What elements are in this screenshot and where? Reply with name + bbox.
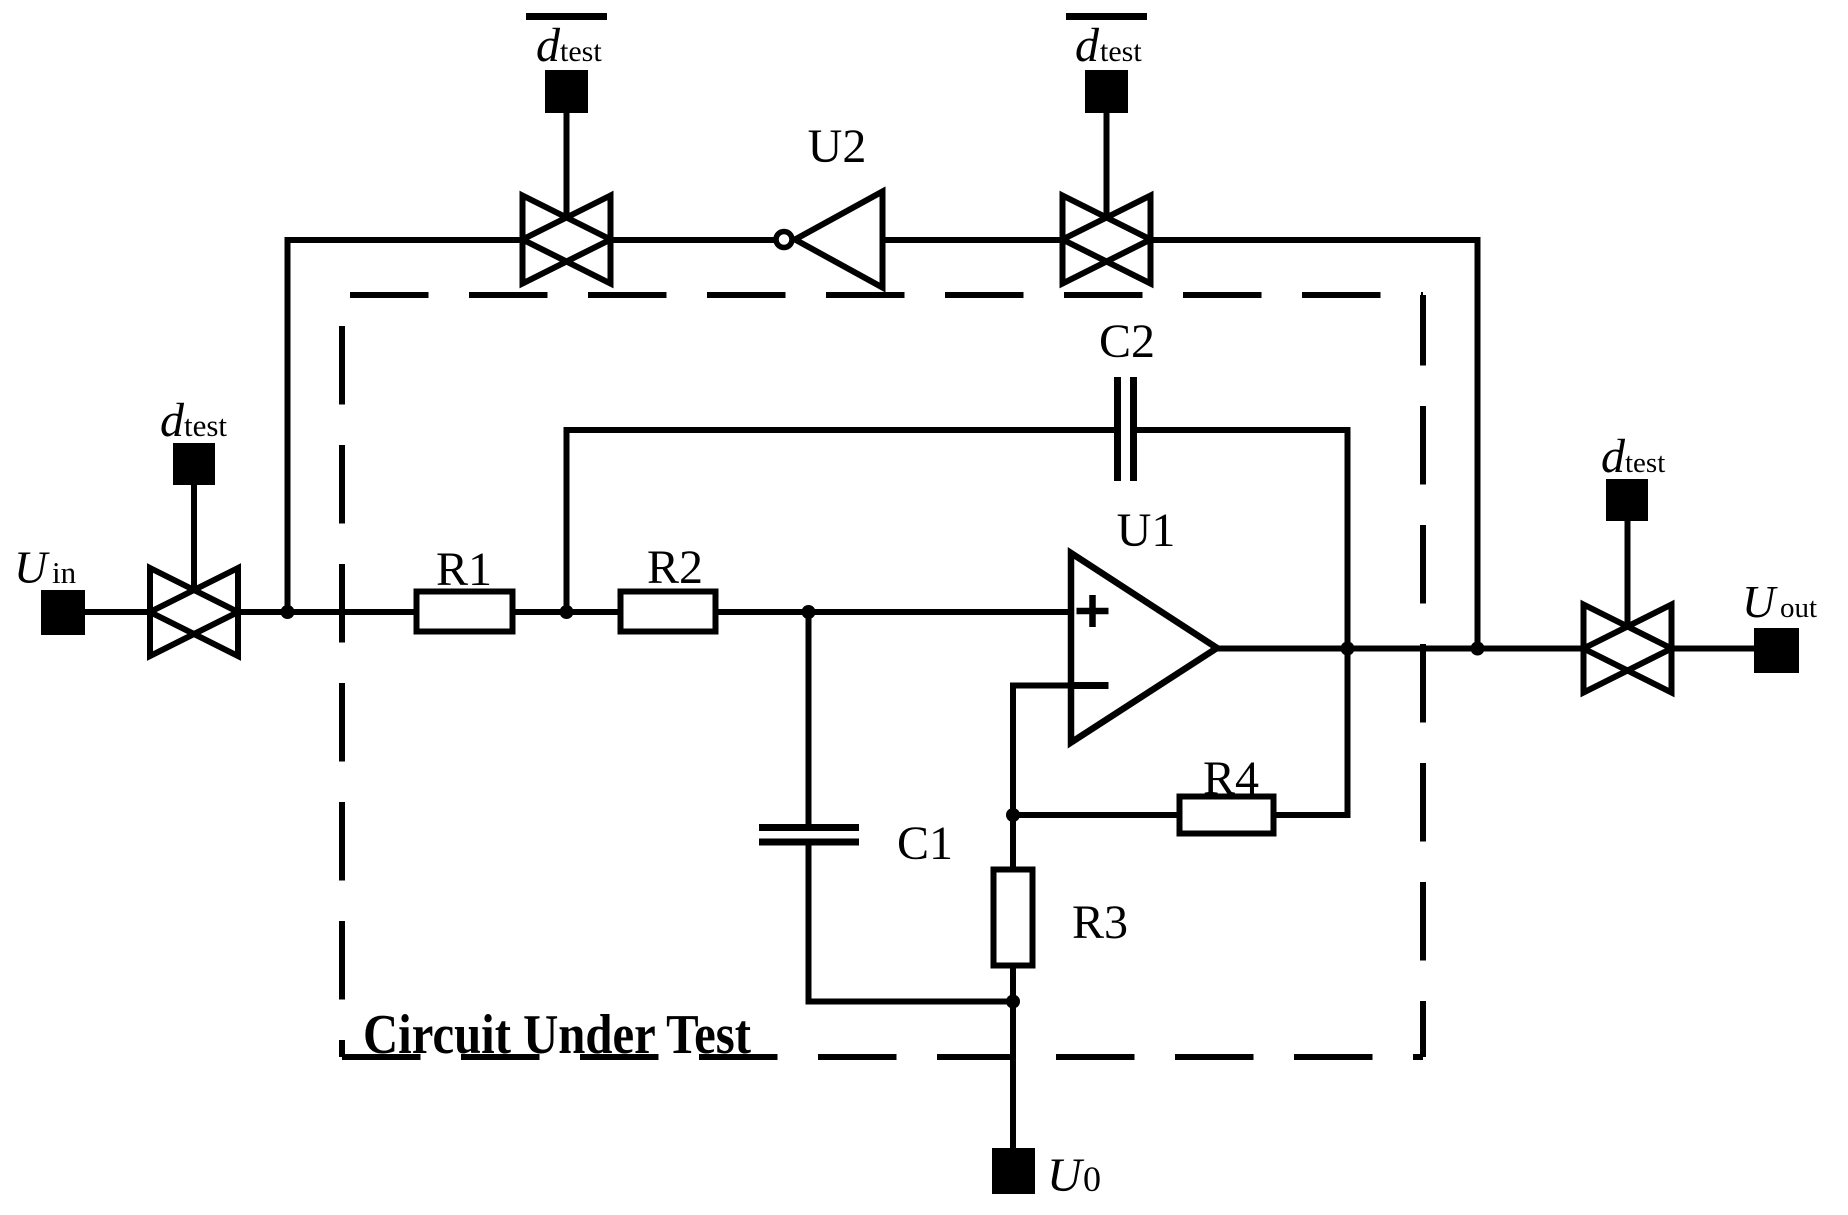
wire: node D to R3 top bbox=[1010, 815, 1016, 870]
junction node F (op-amp output / C2 riser) bbox=[1341, 642, 1355, 656]
terminal square d_test left bbox=[173, 443, 215, 485]
overline of d_test-bar top-left bbox=[526, 13, 607, 20]
wire: control stem of switch S1 bbox=[191, 485, 197, 591]
svg-text:d: d bbox=[1601, 430, 1626, 483]
junction node B (between R1 and R2) bbox=[560, 605, 574, 619]
terminal square d_test-bar top-left bbox=[545, 70, 588, 113]
svg-text:d: d bbox=[160, 394, 185, 447]
svg-text:d: d bbox=[1075, 19, 1100, 72]
wire: C2 right plate to riser down to R4 right end bbox=[1137, 430, 1348, 815]
wire: control stem of switch S2 bbox=[564, 113, 570, 219]
junction node G (output / top feedback riser) bbox=[1471, 642, 1485, 656]
wire: top line between inverter and switch S3 bbox=[883, 237, 1063, 243]
svg-text:U2: U2 bbox=[808, 120, 867, 173]
svg-text:R1: R1 bbox=[436, 543, 492, 596]
wire: Uin terminal to switch S1 bbox=[85, 609, 150, 615]
capacitor C2 right plate bbox=[1130, 377, 1137, 481]
capacitor C1 top plate bbox=[759, 824, 859, 831]
op-amp U1 triangle bbox=[1071, 553, 1217, 743]
svg-text:R2: R2 bbox=[647, 541, 703, 594]
terminal square U0 bbox=[992, 1148, 1035, 1194]
resistor R2 body bbox=[621, 592, 716, 632]
wire: node D to R4 left end bbox=[1013, 812, 1180, 818]
terminal square d_test-bar top-right bbox=[1085, 70, 1128, 113]
junction node A (after switch S1) bbox=[281, 605, 295, 619]
svg-text:U: U bbox=[1047, 1149, 1085, 1202]
resistor R3 body bbox=[994, 870, 1033, 966]
svg-text:U1: U1 bbox=[1117, 504, 1176, 557]
svg-text:C2: C2 bbox=[1099, 315, 1155, 368]
wire: op-amp output to switch S4 bbox=[1216, 646, 1584, 652]
wire: switch S4 to Uout terminal bbox=[1672, 646, 1756, 652]
op-amp U1 minus sign bbox=[1074, 682, 1109, 689]
terminal square Uout bbox=[1754, 628, 1799, 673]
capacitor C1 bottom plate bbox=[759, 839, 859, 846]
junction node E (C1 bottom / R3 bottom) bbox=[1006, 995, 1020, 1009]
switch S2 (top-left analog switch) bbox=[523, 196, 611, 284]
wire: main line branch down to C1 top plate bbox=[806, 612, 812, 824]
svg-text:R4: R4 bbox=[1203, 752, 1259, 805]
svg-text:test: test bbox=[560, 35, 602, 68]
wire: inverting input from node D up to op-amp minus bbox=[1013, 686, 1071, 816]
dashed box top edge bbox=[342, 292, 1423, 298]
dashed box left edge bbox=[339, 295, 345, 1057]
svg-text:Circuit Under Test: Circuit Under Test bbox=[363, 1004, 751, 1066]
op-amp U1 plus sign bbox=[1077, 595, 1109, 627]
svg-text:0: 0 bbox=[1083, 1159, 1101, 1199]
switch S4 (output analog switch) bbox=[1584, 605, 1672, 693]
inverter U2 bubble bbox=[776, 232, 792, 248]
svg-text:U: U bbox=[1742, 576, 1778, 627]
svg-text:test: test bbox=[1625, 447, 1665, 479]
terminal square Uin bbox=[41, 590, 85, 635]
resistor R4 body bbox=[1180, 797, 1274, 834]
svg-text:C1: C1 bbox=[897, 817, 953, 870]
capacitor C2 left plate bbox=[1114, 377, 1121, 481]
svg-text:d: d bbox=[536, 19, 561, 72]
svg-text:U: U bbox=[14, 542, 50, 593]
wire: node B riser up to C2 left plate bbox=[567, 430, 1115, 612]
switch S1 (input analog switch) bbox=[150, 568, 238, 656]
svg-text:in: in bbox=[52, 555, 77, 590]
overline of d_test-bar top-right bbox=[1066, 13, 1147, 20]
wire: R2 to op-amp non-inverting input bbox=[716, 609, 1072, 615]
wire: R3 bottom through node E down to U0 terminal bbox=[1010, 966, 1016, 1149]
wire: control stem of switch S4 bbox=[1625, 521, 1631, 628]
wire: top line between switch S2 and inverter bubble bbox=[611, 237, 777, 243]
dashed box bottom edge bbox=[342, 1054, 1423, 1060]
resistor R1 body bbox=[417, 592, 513, 632]
svg-text:test: test bbox=[1100, 35, 1142, 68]
wire: control stem of switch S3 bbox=[1104, 113, 1110, 219]
dashed box right edge bbox=[1420, 295, 1426, 1057]
wire: R1 to R2 bbox=[513, 609, 621, 615]
junction node C (C1 branch on main line) bbox=[802, 605, 816, 619]
inverter U2 triangle bbox=[795, 192, 883, 288]
junction node D (R3 top / R4 left) bbox=[1006, 808, 1020, 822]
terminal square d_test right bbox=[1606, 479, 1648, 521]
dashed box: Circuit Under Test boundary bbox=[342, 295, 1423, 1057]
svg-text:test: test bbox=[184, 408, 227, 443]
wire: top line from switch S3 to right riser down to output node bbox=[1151, 240, 1478, 649]
svg-text:R3: R3 bbox=[1072, 896, 1128, 949]
wire: top feedback line from left riser to switch S2 bbox=[288, 240, 523, 612]
switch S3 (top-right analog switch) bbox=[1063, 196, 1151, 284]
wire: switch S1 to R1 bbox=[238, 609, 417, 615]
wire: C1 bottom plate down and right to node E bbox=[809, 846, 1014, 1002]
svg-text:out: out bbox=[1780, 592, 1817, 624]
